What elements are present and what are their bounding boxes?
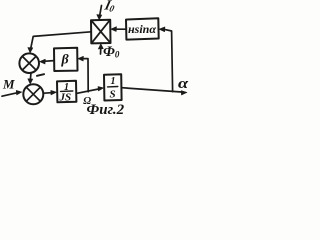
svg-text:JS: JS: [59, 92, 72, 104]
wire M input: [2, 93, 17, 96]
wire H sin alpha to multiplier: [116, 28, 127, 30]
label Fig 2 caption: [87, 102, 125, 118]
wire summing junction S2 to integrator 1/JS: [44, 92, 52, 95]
svg-text:α: α: [178, 75, 189, 92]
label I0: [102, 0, 117, 14]
gain box beta: [54, 48, 78, 71]
svg-text:1: 1: [111, 76, 116, 87]
svg-text:нsinα: нsinα: [128, 22, 156, 36]
summing junction S1: [19, 53, 39, 73]
wire summing junction S1 to S2: [29, 73, 32, 79]
gain box H sin alpha: [126, 18, 159, 39]
minus sign: [37, 74, 44, 76]
integrator box 1/S: [104, 74, 122, 100]
wire Phi0 input: [100, 46, 102, 54]
label beta: [61, 53, 70, 68]
label alpha: [178, 75, 189, 92]
wire integrator 1/JS to integrator 1/S: [76, 89, 98, 93]
wire multiplier output to summing junction S1: [31, 32, 91, 49]
wire beta to summing junction S1: [44, 60, 55, 63]
svg-text:Фиг.2: Фиг.2: [87, 102, 125, 118]
label Phi0: [103, 44, 120, 60]
summing junction S2: [23, 84, 43, 104]
label H sin alpha: [128, 22, 156, 36]
svg-text:S: S: [110, 89, 116, 101]
wire I0 input: [100, 6, 102, 16]
svg-text:I0: I0: [102, 0, 117, 14]
wire feedback alpha to H sin alpha: [165, 29, 173, 91]
multiplier box: [91, 20, 111, 44]
node omega label: [83, 96, 91, 107]
wire output alpha: [122, 88, 182, 92]
svg-text:Φ0: Φ0: [103, 44, 120, 60]
wire omega node to beta: [81, 59, 89, 92]
label 1/JS: [59, 82, 72, 104]
label M: [2, 77, 15, 92]
label 1/S: [110, 76, 116, 101]
svg-text:β: β: [61, 53, 70, 68]
integrator box 1/JS: [57, 81, 76, 103]
svg-text:M: M: [2, 77, 15, 92]
